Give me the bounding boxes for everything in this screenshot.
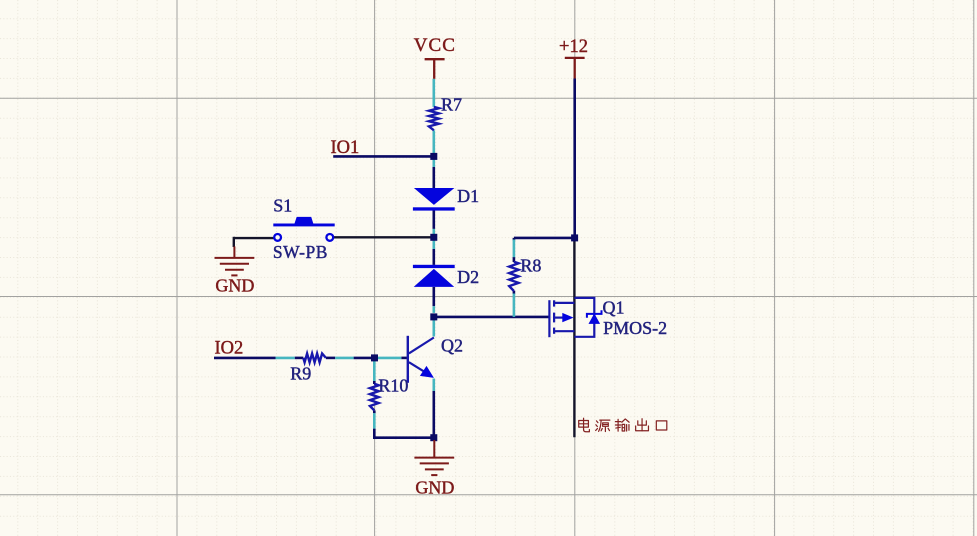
svg-text:D2: D2 (457, 267, 479, 287)
svg-text:VCC: VCC (414, 35, 456, 56)
svg-text:S1: S1 (273, 195, 292, 215)
svg-text:D1: D1 (457, 186, 479, 206)
svg-text:IO1: IO1 (331, 138, 360, 158)
svg-text:Q1: Q1 (603, 297, 625, 317)
svg-text:GND: GND (415, 477, 454, 497)
svg-text:+12: +12 (559, 37, 588, 57)
svg-text:R7: R7 (441, 95, 462, 115)
svg-text:R10: R10 (378, 376, 408, 396)
svg-text:IO2: IO2 (215, 338, 244, 358)
svg-text:Q2: Q2 (441, 336, 463, 356)
svg-text:SW-PB: SW-PB (273, 242, 328, 262)
svg-text:R9: R9 (290, 364, 311, 384)
svg-text:R8: R8 (520, 256, 541, 276)
svg-text:PMOS-2: PMOS-2 (603, 318, 667, 338)
svg-text:GND: GND (215, 275, 254, 295)
